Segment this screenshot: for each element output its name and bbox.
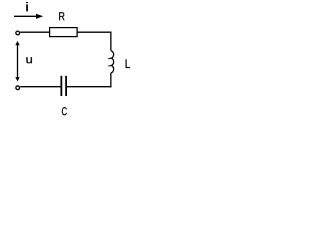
wire bottom-right (67, 86, 112, 88)
current arrow i (14, 14, 43, 19)
resistor label R (59, 12, 64, 20)
wire top-left (20, 31, 50, 33)
voltage arrow u (double-headed) (15, 41, 19, 82)
wire bottom-left (20, 86, 60, 88)
inductor label L (126, 59, 130, 68)
wire right vertical lower (110, 73, 112, 88)
resistor R body (50, 28, 78, 37)
current label i (26, 2, 27, 11)
voltage label u (26, 57, 31, 63)
inductor L coil (111, 51, 114, 73)
capacitor C plates (61, 76, 66, 96)
terminal node (top) (16, 31, 20, 35)
coil curl tick 1 (108, 57, 111, 60)
wire right vertical upper (110, 32, 112, 51)
coil curl tick 2 (108, 65, 111, 68)
wire top-right (77, 31, 111, 33)
capacitor label C (62, 107, 67, 115)
terminal node (bottom) (16, 86, 20, 90)
